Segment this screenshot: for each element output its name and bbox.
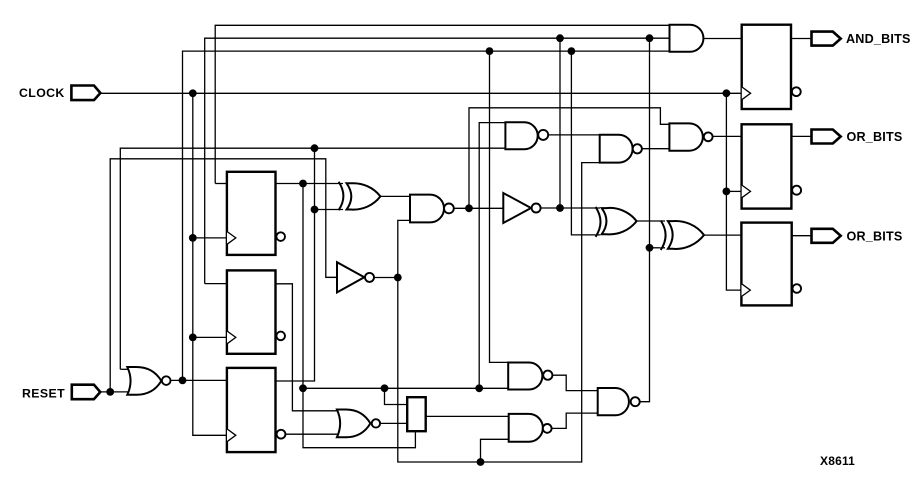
wire NOR2 output to rect lower-left input [380,422,407,424]
wire clock tap to FF_R2 [726,190,741,192]
wire INV1 input stub [326,276,338,278]
bubble NAND6 [543,424,552,433]
wire clock tap to FF_A [193,237,227,239]
pin OR_BITS output 1 [812,130,841,144]
wire net AND.in1 : top line y=25.3 from x=215.2 to AND1 [215,25,669,183]
nand gate NAND6 [509,414,543,442]
wire XOR1 output to NAND0 [380,195,410,197]
wire riser x=560 from y38 line to INV2 output [559,38,561,208]
bubble INV2 [532,204,541,213]
flip-flop FF_R3 [741,223,791,306]
node y388-x479 [475,384,483,392]
wire XOR2 output to XOR3 top input [637,220,665,222]
wire NAND1 output to NAND2 top input [548,134,599,136]
node FF_A Q [299,180,307,188]
node y38-x560 [556,34,564,42]
wire NAND2 output to NAND3 lower input [642,148,670,150]
wire NOR1 output to FF_C D [171,379,227,381]
wire riser x=469 up over to NAND3 top input [469,108,669,209]
clock triangle FF_R2 [742,185,751,198]
pin CLOCK input [71,86,100,101]
wire RESET pin to NOR1 lower input [100,391,131,393]
flip-flop FF_R2 [742,124,792,208]
wire XOR3 lower input from x=649.5 [650,247,666,249]
and gate AND1 (3-input) [670,25,704,52]
bubble FF_R1 QB [792,87,801,96]
wire CLOCK vertical x=192.8 down to FF_C clock [193,93,227,435]
inverter INV2 [503,193,531,223]
wire clock right vertical x=726.4 to FF_R3 [726,93,741,290]
nand gate NAND7 [598,388,629,415]
node QC to XOR1 [311,206,319,214]
nor gate NOR2 [337,410,371,438]
bubble FF_B QB [276,332,285,341]
xor gate XOR3 back arc [661,221,666,251]
xor gate XOR2 back arc [596,207,601,237]
node NAND0 out riser [465,204,473,212]
bubble NAND0 [444,204,454,214]
nand gate NAND3 [669,123,702,150]
flip-flop FF_B [227,270,276,353]
bubble NOR1 [162,376,171,385]
node INV2 out riser [556,204,564,212]
pin RESET input [72,385,101,400]
bubble INV1 [365,273,374,282]
node clock to FF_A [189,234,197,242]
node y388-x384 [381,384,389,392]
node clock to FF_R1 [723,89,731,97]
svg-text:CLOCK: CLOCK [19,86,65,100]
node INV1 out [394,274,402,282]
svg-text:RESET: RESET [22,386,65,400]
node clock junction [189,89,197,97]
wire NAND3 output to FF_R2 D [713,135,742,137]
xor gate XOR1 back arc [339,182,344,210]
wire FF_C Q̄ bubble to NOR2 lower input [285,433,342,435]
wire XOR3 output to FF_R3 D [704,234,741,236]
xor gate XOR1 body [347,183,381,209]
node NOR1 out riser [179,377,187,385]
clock triangle FF_A [227,232,236,245]
wire NAND7 output up the x=649.5 riser to y38 line [640,38,650,402]
wire FF_A Q vertical x=303 down, to bottom y=447.7 then up into rect bottom pin [303,184,415,448]
node y388-x303 [299,384,307,392]
node y51-x489 [486,47,494,55]
wire FF_R3 Q to OR_BITS pin [792,235,812,237]
wire riser x=479.2 up to NAND1 top input [479,123,505,389]
wire CLOCK horizontal y=93.3 [100,92,741,94]
component small rectangle U1 [407,397,426,431]
nand gate NAND5 [508,363,542,390]
pin OR_BITS output 2 [812,229,841,243]
wire NAND6 output up to NAND7 lower input [552,413,598,428]
wire FF_A D input [215,183,227,185]
nand gate NAND0 [410,195,444,223]
bubble NAND1 [538,130,548,140]
node QC-y148 [311,144,319,152]
wire INV2 output to XOR2 top input [541,207,600,209]
nand gate NAND1 [505,122,537,149]
node x649 to XOR3 [646,244,654,252]
wire QC vertical x=314.5 down to FF_C Q [276,148,315,381]
wire riser x=489.5 from y51 line down to NAND5 top input [490,51,509,362]
node RESET riser [106,388,114,396]
flip-flop FF_C [227,368,276,452]
clock triangle FF_B [227,331,236,344]
bubble FF_R3 QB [793,284,802,293]
nand gate NAND2 [600,135,633,163]
nor gate NOR1 (reset) [127,367,161,395]
wire net AND.in2 : y=38.2 line, left end drops to FF_B D input [205,38,670,283]
node y38-x649 [646,34,654,42]
wire FF_B D input from x=204.7 [205,283,227,285]
bubble FF_C QB [277,430,286,439]
svg-text:OR_BITS: OR_BITS [847,230,903,244]
svg-text:X8611: X8611 [820,454,855,468]
wire QC net y=148.2 from x=120.3 to NAND1 lower input [120,148,505,369]
wire NOR1 top input [120,368,133,370]
node y51-x571 [568,47,576,55]
node clock to FF_B [189,334,197,342]
svg-text:AND_BITS: AND_BITS [846,32,911,46]
wire NAND5 output down to NAND7 top input [553,375,598,390]
wire y=388.3 line from x=303 to NAND5 lower input [303,387,508,389]
clock triangle FF_R3 [742,284,751,297]
wire rect output to NAND6 top input [426,415,509,417]
xor gate XOR2 body [602,208,637,234]
wire clock tap to FF_B [193,336,227,338]
bubble NOR2 [372,419,380,427]
svg-text:OR_BITS: OR_BITS [847,130,903,144]
node y462-x480 [477,458,485,466]
wire riser x=571.4 from y51 line down to XOR2 lower input [571,51,600,235]
wire FF_R1 Q to AND_BITS pin [791,38,812,40]
flip-flop FF_R1 [742,25,791,109]
bubble FF_R2 QB [792,186,801,195]
bubble NAND3 [704,132,713,141]
clock triangle FF_R1 [742,87,751,100]
wire NAND0 output to INV2 input [454,207,504,209]
bubble NAND5 [543,371,552,380]
inverter INV1 [337,262,364,292]
wire FF_B Q down to NOR2 top input [276,284,344,411]
bubble FF_A QB [276,232,285,241]
wire FF_A Q to XOR1 top input [276,183,344,185]
pin AND_BITS output [812,32,841,46]
node clock to FF_R2 [723,188,731,196]
wire RESET riser y=158.8 to INV1 input [110,159,337,392]
GATES [71,25,840,452]
clock triangle FF_C [227,429,236,442]
wire x=397.8 vertical: NAND0 lower input down to y=462 line over to NAND2 lower input [398,163,600,462]
wire drop from y=388.3 to rect upper-left input [385,388,408,404]
wire FF_R2 Q to OR_BITS pin [791,135,811,137]
bubble NAND2 [633,144,642,153]
xor gate XOR3 body [668,221,704,249]
wire NAND6 lower input drop to y=462 line [481,439,509,462]
wire INV1 output to x=397.8 node [374,277,398,279]
flip-flop FF_A [227,172,276,255]
wire QC tap to XOR1 lower input [315,209,344,211]
wire AND1 output to FF_R1 D [703,38,741,40]
bubble NAND7 [631,397,640,406]
wire net AND.in3 : y=51.1 line, left end drops to NOR1 output node [183,51,670,380]
